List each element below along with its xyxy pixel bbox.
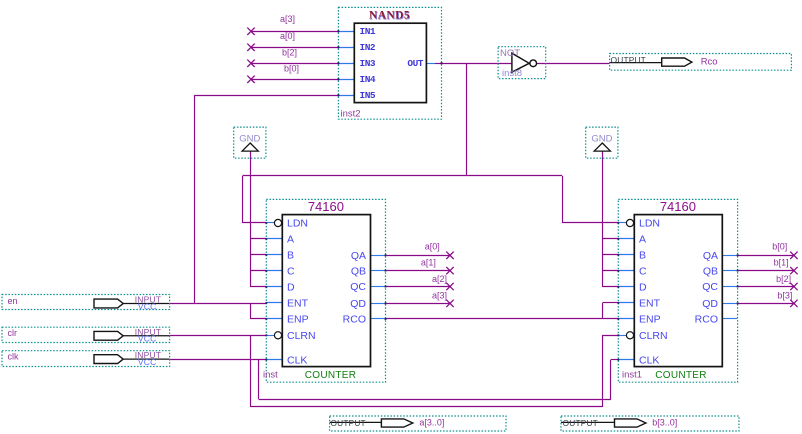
svg-text:OUT: OUT — [407, 58, 423, 69]
svg-text:IN2: IN2 — [360, 42, 376, 53]
svg-text:inst1: inst1 — [622, 370, 642, 381]
svg-text:IN3: IN3 — [360, 58, 376, 69]
svg-text:clk: clk — [8, 351, 19, 361]
svg-text:QC: QC — [702, 281, 718, 293]
svg-text:COUNTER: COUNTER — [655, 370, 707, 381]
svg-text:a[3]: a[3] — [432, 291, 447, 301]
svg-text:LDN: LDN — [639, 218, 660, 230]
svg-text:IN4: IN4 — [360, 74, 376, 85]
svg-text:NOT: NOT — [500, 48, 520, 59]
svg-text:RCO: RCO — [343, 314, 366, 326]
svg-text:QD: QD — [350, 298, 366, 310]
svg-text:QD: QD — [702, 298, 718, 310]
svg-text:a[1]: a[1] — [421, 258, 436, 268]
svg-text:QA: QA — [703, 250, 718, 262]
svg-text:inst8: inst8 — [502, 68, 522, 79]
svg-text:C: C — [287, 266, 295, 278]
svg-text:a[3..0]: a[3..0] — [419, 417, 444, 427]
svg-text:A: A — [287, 234, 294, 246]
svg-text:a[2]: a[2] — [432, 274, 447, 284]
svg-text:clr: clr — [8, 328, 18, 338]
svg-text:ENT: ENT — [639, 298, 661, 310]
svg-text:D: D — [287, 282, 295, 294]
svg-text:CLK: CLK — [287, 354, 307, 366]
svg-text:inst: inst — [263, 370, 278, 381]
svg-text:OUTPUT: OUTPUT — [611, 55, 646, 65]
svg-text:74160: 74160 — [660, 199, 696, 214]
svg-text:b[2]: b[2] — [776, 274, 791, 284]
svg-text:ENT: ENT — [287, 298, 309, 310]
svg-text:Rco: Rco — [701, 57, 718, 68]
svg-text:OUTPUT: OUTPUT — [563, 418, 598, 428]
svg-text:CLRN: CLRN — [287, 330, 316, 342]
svg-text:B: B — [639, 250, 646, 262]
svg-text:inst2: inst2 — [341, 108, 361, 119]
svg-text:A: A — [639, 234, 646, 246]
svg-text:ENP: ENP — [287, 314, 309, 326]
svg-text:C: C — [639, 266, 647, 278]
svg-text:QA: QA — [351, 250, 366, 262]
svg-text:VCC: VCC — [138, 301, 157, 311]
svg-text:b[1]: b[1] — [774, 258, 789, 268]
svg-text:en: en — [8, 296, 18, 306]
svg-text:b[0]: b[0] — [284, 64, 299, 74]
svg-text:ENP: ENP — [639, 314, 661, 326]
svg-text:QB: QB — [703, 265, 718, 277]
svg-text:LDN: LDN — [287, 218, 308, 230]
svg-text:GND: GND — [591, 133, 612, 144]
svg-text:QC: QC — [350, 281, 366, 293]
svg-text:QB: QB — [351, 265, 366, 277]
svg-text:a[3]: a[3] — [280, 14, 295, 24]
svg-text:OUTPUT: OUTPUT — [331, 418, 366, 428]
svg-text:VCC: VCC — [138, 334, 157, 344]
svg-text:VCC: VCC — [138, 357, 157, 367]
svg-text:RCO: RCO — [695, 314, 718, 326]
svg-text:a[0]: a[0] — [280, 31, 295, 41]
svg-text:COUNTER: COUNTER — [305, 370, 357, 381]
svg-text:b[2]: b[2] — [282, 47, 297, 57]
svg-text:b[0]: b[0] — [772, 242, 787, 252]
svg-text:NAND5: NAND5 — [369, 10, 410, 22]
svg-text:GND: GND — [239, 133, 260, 144]
svg-text:B: B — [287, 250, 294, 262]
svg-text:74160: 74160 — [308, 199, 344, 214]
svg-text:D: D — [639, 282, 647, 294]
svg-text:b[3]: b[3] — [777, 291, 792, 301]
svg-text:CLK: CLK — [639, 354, 659, 366]
svg-text:CLRN: CLRN — [639, 330, 668, 342]
svg-text:a[0]: a[0] — [425, 242, 440, 252]
svg-text:b[3..0]: b[3..0] — [652, 417, 677, 427]
svg-text:IN5: IN5 — [360, 90, 376, 101]
svg-text:IN1: IN1 — [360, 26, 376, 37]
